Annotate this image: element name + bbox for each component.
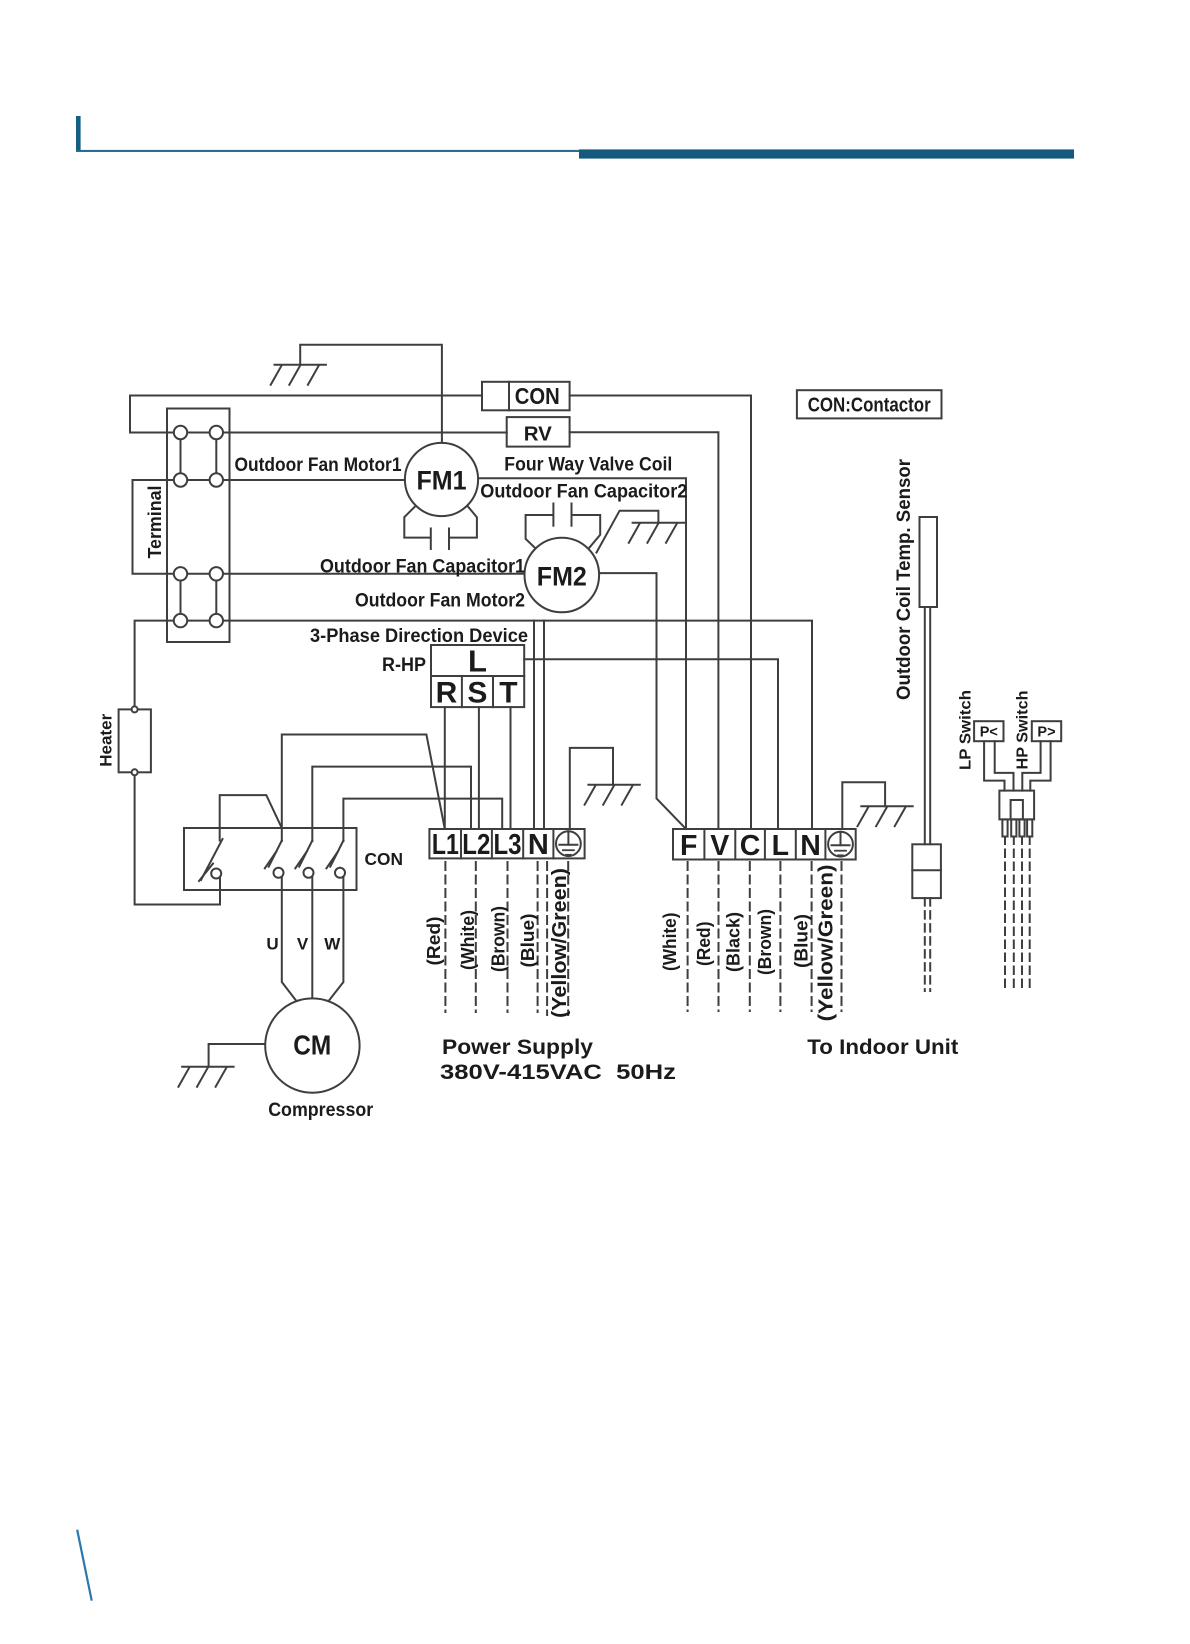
- sensor dashed leads: [925, 898, 930, 991]
- wire: FM1 right to F terminal: [478, 478, 686, 829]
- wire: terminal row1 pair link: [181, 432, 217, 434]
- wire: terminal row2/row3 bridge: [133, 480, 175, 574]
- HP switch box: [1032, 721, 1061, 741]
- wire: pole3 to CM V: [311, 877, 313, 999]
- svg-text:U: U: [266, 935, 278, 954]
- svg-text:S: S: [467, 676, 487, 709]
- 3-phase device L box: [431, 645, 524, 676]
- svg-text:R-HP: R-HP: [382, 655, 426, 676]
- contact blade pole4: [330, 841, 343, 867]
- indoor unit dashed leads (White Red Black Brown Blue Yellow/Green): [688, 862, 842, 1011]
- power supply dashed leads (Red White Brown Blue Yellow/Green): [445, 862, 568, 1015]
- header vertical bar: [76, 116, 81, 152]
- pressure switch connector: [999, 791, 1034, 820]
- svg-text:P<: P<: [980, 725, 998, 741]
- ground G2 (fan motor 2 frame): [629, 523, 684, 543]
- svg-text:HP Switch: HP Switch: [1014, 691, 1031, 770]
- svg-text:Outdoor Fan Motor1: Outdoor Fan Motor1: [235, 454, 402, 476]
- pressure switch dashed leads: [1005, 837, 1030, 992]
- svg-text:3-Phase Direction Device: 3-Phase Direction Device: [310, 625, 528, 647]
- relay box small (CON aux): [482, 382, 509, 411]
- four-way valve coil RV box: [507, 417, 570, 447]
- legend box CON:Contactor: [797, 390, 942, 418]
- header thick bar: [579, 149, 1074, 158]
- svg-text:V: V: [297, 935, 309, 954]
- wire: N bus drop b to power N: [543, 621, 545, 829]
- svg-text:F: F: [680, 830, 697, 862]
- wire: contactor pole1 top link: [220, 795, 282, 840]
- svg-text:Outdoor Coil Temp. Sensor: Outdoor Coil Temp. Sensor: [893, 459, 915, 700]
- svg-text:Outdoor Fan Motor2: Outdoor Fan Motor2: [355, 590, 525, 612]
- wire: RV coil to V terminal: [570, 432, 719, 829]
- wire: terminal row3 pair link: [181, 573, 217, 575]
- wire: terminal row1-row2 links: [180, 433, 182, 481]
- svg-text:W: W: [324, 935, 341, 954]
- svg-text:Compressor: Compressor: [268, 1100, 374, 1121]
- svg-text:(Yellow/Green): (Yellow/Green): [549, 868, 571, 1018]
- svg-text:(Yellow/Green): (Yellow/Green): [816, 864, 838, 1021]
- 3-phase device RST box: [431, 676, 524, 707]
- svg-text:L2: L2: [462, 829, 490, 861]
- page fold diagonal line: [77, 1531, 91, 1600]
- contactor coil CON box: [509, 382, 570, 411]
- wire: HP switch leads: [1022, 741, 1040, 790]
- svg-text:L1: L1: [432, 829, 459, 861]
- svg-text:RV: RV: [524, 422, 552, 445]
- svg-text:FM2: FM2: [537, 561, 587, 591]
- wire: S to L2: [478, 707, 480, 829]
- wire: heater bottom to contactor pole1: [135, 775, 220, 904]
- svg-text:N: N: [528, 829, 549, 861]
- wire: indoor earth to ground G4: [842, 782, 885, 829]
- contactor CON main box: [184, 828, 357, 890]
- wire: FM2 right to F terminal: [599, 573, 686, 829]
- wire: T to L3: [510, 707, 512, 829]
- ground G5 (compressor frame): [178, 1067, 233, 1087]
- wire: terminal row1 left to CON coil: [130, 396, 482, 433]
- svg-text:CM: CM: [293, 1029, 331, 1060]
- capacitor C2 bucket left arm: [526, 515, 552, 549]
- fan motor FM2 circle: [525, 538, 600, 613]
- power terminal block L1 L2 L3 N E: [429, 829, 584, 858]
- connector pins: [1002, 819, 1007, 836]
- earth terminal symbol (indoor block): [828, 832, 853, 857]
- wire: terminal row3 right to FM2: [216, 573, 525, 575]
- svg-text:LP Switch: LP Switch: [958, 690, 975, 770]
- svg-text:(Blue): (Blue): [790, 914, 811, 968]
- wire: terminal row2 pair link: [181, 479, 217, 481]
- wire: LP switch leads: [984, 741, 1004, 790]
- svg-text:R: R: [436, 676, 458, 709]
- capacitor C2 plate 2: [571, 504, 573, 526]
- svg-text:Heater: Heater: [97, 713, 116, 766]
- ground G1 (top left, fan-motor frame): [271, 365, 326, 385]
- wire: contactor pole2 to L1: [282, 735, 445, 842]
- contact blade pole3: [299, 841, 312, 867]
- sensor lead pair: [924, 607, 926, 844]
- svg-text:(Red): (Red): [693, 922, 714, 967]
- ground G3 (power supply earth): [585, 785, 640, 805]
- svg-text:(Brown): (Brown): [754, 909, 775, 975]
- header thin rule: [76, 150, 579, 152]
- svg-text:CON: CON: [515, 383, 560, 409]
- wire: L output to indoor L: [524, 659, 778, 829]
- capacitor C2 plate 1: [552, 504, 554, 526]
- contact circles: [211, 869, 221, 879]
- svg-text:Four Way Valve Coil: Four Way Valve Coil: [504, 453, 672, 475]
- earth terminal symbol (power block): [556, 831, 581, 856]
- capacitor C1 plate 1: [430, 529, 432, 550]
- svg-text:P>: P>: [1037, 725, 1055, 741]
- svg-text:C: C: [740, 830, 761, 862]
- outdoor coil temp sensor body: [920, 517, 938, 607]
- svg-text:380V-415VAC 50Hz: 380V-415VAC 50Hz: [440, 1061, 676, 1084]
- terminal block box: [167, 409, 230, 643]
- svg-text:V: V: [710, 830, 729, 862]
- ground G4 (indoor unit earth): [858, 806, 913, 826]
- wire: CON coil to C terminal: [570, 396, 751, 830]
- wire: terminal row4 left to heater: [135, 621, 174, 707]
- svg-text:L: L: [772, 830, 789, 862]
- wire: terminal row2 right to FM1: [216, 479, 405, 481]
- svg-text:Outdoor Fan Capacitor2: Outdoor Fan Capacitor2: [480, 481, 687, 503]
- wire: R to L1: [444, 707, 446, 829]
- svg-text:(Brown): (Brown): [487, 906, 508, 972]
- wire: N bus (terminal row4 to indoor N): [216, 621, 812, 829]
- wire: ground G1 to FM1 top: [300, 345, 442, 443]
- svg-text:(Blue): (Blue): [517, 914, 538, 968]
- svg-text:(White): (White): [659, 913, 680, 972]
- capacitor C1 plate 2: [448, 529, 450, 550]
- LP switch box: [974, 721, 1003, 741]
- terminal screw circles: [174, 426, 187, 439]
- svg-text:L: L: [468, 644, 487, 679]
- svg-text:Terminal: Terminal: [145, 486, 165, 559]
- svg-text:(White): (White): [457, 910, 478, 970]
- svg-text:L3: L3: [494, 829, 522, 861]
- contact blade pole2: [269, 841, 282, 867]
- svg-text:(Red): (Red): [423, 917, 444, 966]
- wire: contactor pole3 to L2: [312, 767, 471, 841]
- wire: contactor pole4 to L3: [343, 799, 502, 841]
- wire: terminal row4 pair link: [181, 620, 217, 622]
- wire: terminal row1 right to RV coil: [216, 432, 506, 434]
- wire: terminal row3-row4 links: [180, 574, 182, 621]
- heater terminal circles: [132, 706, 138, 712]
- svg-text:To Indoor Unit: To Indoor Unit: [807, 1036, 958, 1059]
- wire: CM frame to ground G5: [209, 1044, 266, 1067]
- svg-text:T: T: [499, 676, 517, 709]
- svg-text:(Black): (Black): [723, 912, 744, 972]
- wire: pole2 to CM U: [282, 877, 296, 1001]
- capacitor C1 bucket right arm: [451, 506, 477, 538]
- svg-text:N: N: [800, 830, 821, 862]
- capacitor C2 bucket right arm: [573, 515, 600, 549]
- compressor CM circle: [265, 998, 359, 1092]
- capacitor C1 bucket left arm: [404, 506, 429, 538]
- wire: power earth to ground G3: [570, 748, 613, 829]
- fan motor FM1 circle: [405, 443, 478, 516]
- svg-text:CON: CON: [365, 849, 404, 869]
- svg-text:Outdoor Fan Capacitor1: Outdoor Fan Capacitor1: [320, 556, 525, 578]
- wire: pole4 to CM W: [329, 877, 343, 1001]
- svg-text:Power Supply: Power Supply: [442, 1036, 593, 1059]
- svg-text:CON:Contactor: CON:Contactor: [808, 394, 931, 416]
- sensor connector: [912, 844, 941, 898]
- svg-text:FM1: FM1: [417, 466, 467, 496]
- contact blade pole1: [201, 839, 223, 880]
- heater R1 box: [119, 709, 151, 772]
- indoor terminal block F V C L N E: [673, 829, 856, 860]
- wire: N bus drop a to power N: [533, 621, 535, 829]
- wire: FM2 frame to ground G2: [597, 511, 659, 553]
